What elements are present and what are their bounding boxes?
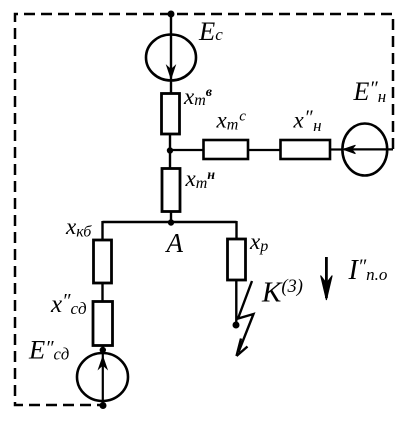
node: fault point dot [233, 322, 240, 329]
wire: horizontal branch to x_т^с [170, 149, 204, 151]
wire: junction below x_т^в [169, 134, 171, 169]
resistor x_т^в [162, 94, 180, 135]
wire: x''_н to source E''_н [330, 148, 344, 150]
source E''_н circle [342, 124, 387, 176]
EMF arrowhead E_c (down) [167, 66, 175, 79]
resistor x''_н [281, 140, 331, 159]
resistor x_т^н [162, 169, 180, 212]
svg-text:A: A [165, 228, 184, 258]
node: junction dot below x''_сд [100, 347, 106, 353]
wire: x_т^н down to node A bus [170, 212, 172, 223]
EMF arrowhead E''_н (left) [343, 145, 355, 153]
current arrow I''_п.о shaft [325, 257, 328, 298]
EMF arrow E''_н shaft [344, 148, 393, 150]
node: top junction dot [168, 11, 175, 18]
fault lightning bolt K^(3) [238, 281, 254, 352]
wire: node A horizontal bus [103, 221, 237, 223]
wire: x_р down to fault point [235, 280, 237, 325]
source E''_сд circle [77, 353, 128, 401]
wire: between x_т^с and x''_н [248, 149, 281, 151]
node A dot [168, 219, 174, 225]
wire: left branch down to x_кб [101, 221, 103, 241]
node: bottom boundary dot [100, 402, 107, 409]
EMF arrowhead E''_сд (up) [99, 357, 107, 369]
wire: x_кб to x''_сд [101, 283, 103, 302]
node: junction dot below x_т^в [167, 147, 173, 153]
source E_c circle [146, 35, 196, 81]
resistor x_кб [94, 240, 112, 283]
resistor x''_сд [93, 302, 113, 346]
fault lightning arrowhead [237, 339, 248, 357]
EMF arrow E''_сд shaft [102, 346, 104, 407]
current arrowhead I''_п.о (down) [321, 276, 333, 301]
wire: right branch down to x_р [235, 221, 237, 240]
wire / EMF arrow E_c shaft [170, 14, 172, 94]
resistor x_р [228, 239, 246, 280]
resistor x_т^с [204, 140, 249, 159]
